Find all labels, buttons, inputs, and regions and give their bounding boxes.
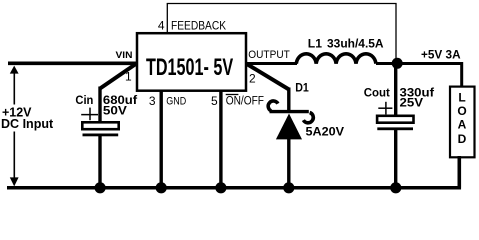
svg-text:OUTPUT: OUTPUT bbox=[248, 49, 290, 61]
node dot GND bbox=[156, 182, 167, 193]
node dot Cout bbox=[390, 182, 401, 193]
wire ground rail with corner up to LOAD bbox=[7, 156, 459, 188]
wire pin2 diagonal to D1 bbox=[246, 64, 289, 90]
svg-text:3: 3 bbox=[149, 94, 156, 108]
svg-text:33uh/4.5A: 33uh/4.5A bbox=[327, 37, 384, 51]
svg-text:FEEDBACK: FEEDBACK bbox=[171, 19, 226, 33]
wire pin 3 GND drop bbox=[159, 91, 162, 188]
svg-text:Cout: Cout bbox=[364, 86, 390, 100]
node dot Cin bbox=[95, 182, 106, 193]
wire +12V input rail bbox=[8, 61, 137, 65]
input voltage arrow bbox=[10, 66, 19, 187]
IC U1 TD1501-5V regulator box bbox=[137, 33, 246, 90]
pin 4 feedback lead bbox=[166, 4, 168, 34]
svg-text:O: O bbox=[457, 104, 466, 118]
svg-text:DC Input: DC Input bbox=[1, 116, 54, 131]
diode triangle bbox=[276, 114, 302, 140]
capacitor Cout bbox=[377, 66, 413, 188]
wire output to inductor bbox=[246, 62, 297, 65]
svg-text:L1: L1 bbox=[308, 37, 323, 51]
svg-text:TD1501- 5V: TD1501- 5V bbox=[146, 54, 233, 81]
wire pin 5 ON/OFF drop bbox=[219, 91, 222, 188]
svg-text:2: 2 bbox=[249, 71, 256, 85]
plus sign Cout bbox=[378, 107, 392, 109]
svg-text:4: 4 bbox=[158, 19, 165, 33]
node dot ON/OFF bbox=[215, 182, 226, 193]
svg-text:GND: GND bbox=[166, 96, 186, 108]
svg-text:VIN: VIN bbox=[116, 50, 133, 60]
node dot D1 bbox=[283, 182, 294, 193]
diode D1 schottky bbox=[268, 88, 313, 188]
svg-text:5: 5 bbox=[211, 94, 218, 108]
svg-text:L: L bbox=[458, 90, 465, 104]
svg-text:A: A bbox=[458, 117, 467, 131]
svg-text:50V: 50V bbox=[103, 104, 127, 118]
svg-text:25V: 25V bbox=[400, 95, 424, 109]
wire pin1 diagonal to Cin bbox=[100, 64, 137, 89]
svg-text:5A20V: 5A20V bbox=[306, 126, 345, 138]
wire feedback top run bbox=[167, 3, 397, 5]
schottky cathode bar with curls bbox=[268, 101, 278, 111]
svg-text:+5V 3A: +5V 3A bbox=[421, 49, 461, 61]
svg-text:ON/OFF: ON/OFF bbox=[226, 96, 264, 108]
LOAD box bbox=[450, 87, 475, 158]
capacitor Cin bbox=[81, 87, 119, 188]
svg-text:D1: D1 bbox=[295, 83, 309, 95]
inductor L1 bbox=[296, 54, 376, 64]
wire inductor to node bbox=[376, 62, 397, 65]
plus sign Cin bbox=[81, 114, 98, 116]
wire load bottom stub bbox=[458, 156, 462, 188]
node junction after L1 bbox=[392, 58, 403, 69]
wire feedback right drop bbox=[395, 4, 397, 61]
svg-text:D: D bbox=[458, 132, 467, 146]
svg-text:Cin: Cin bbox=[75, 93, 93, 107]
wire +5V to load bbox=[397, 64, 462, 88]
